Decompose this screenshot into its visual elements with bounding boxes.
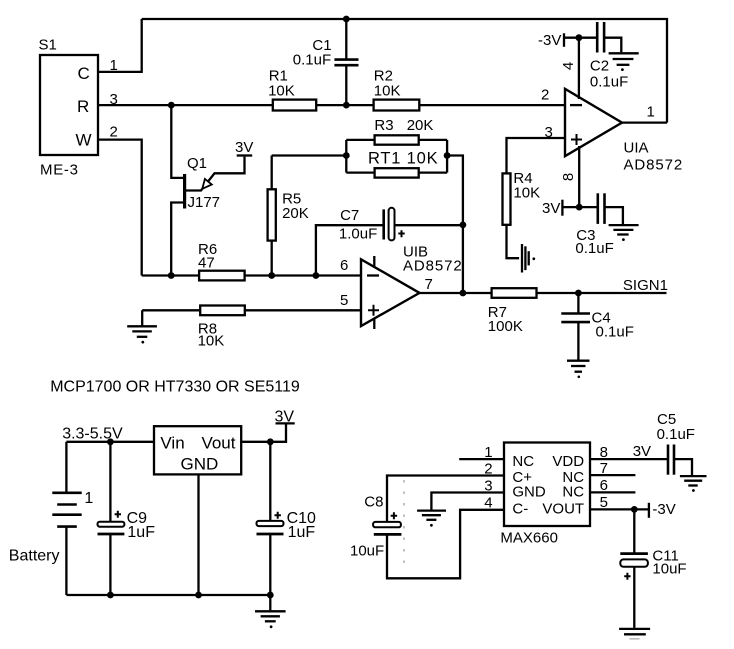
node UIB output [460, 290, 467, 297]
svg-text:10K: 10K [513, 185, 540, 202]
svg-text:20K: 20K [282, 205, 309, 222]
dashed separator [403, 480, 405, 571]
wire -3V to C2 [564, 37, 597, 39]
transistor Q1 J177 [171, 155, 244, 276]
wire rail to ground [269, 595, 271, 610]
ground C2 [609, 53, 639, 71]
capacitor C11 [620, 509, 686, 628]
wire 3V to C3 [562, 206, 597, 208]
wire R5 top to R3/RT1 left node [272, 154, 347, 156]
power -3V terminal [538, 32, 564, 49]
wire Vout to 3V [241, 423, 286, 441]
resistor R3 [346, 117, 447, 145]
svg-text:Battery: Battery [9, 547, 60, 564]
svg-text:Vin: Vin [160, 434, 184, 453]
wire R6 net to UIB pin 6 [142, 274, 361, 276]
node Q1 source on R6 net [168, 272, 175, 279]
svg-text:UIA: UIA [624, 140, 649, 157]
svg-text:MCP1700 OR HT7330 OR SE5119: MCP1700 OR HT7330 OR SE5119 [50, 379, 300, 396]
node C9 top [107, 438, 114, 445]
svg-text:W: W [76, 131, 92, 150]
wire top feedback rail [142, 19, 667, 123]
wire S1 pin C to top rail [98, 19, 142, 72]
wire UIA pin 4 riser [578, 38, 580, 99]
svg-text:4: 4 [560, 62, 577, 70]
svg-text:1uF: 1uF [127, 524, 155, 541]
node R net to Q1 [168, 102, 175, 109]
wire right node to feedback riser [447, 156, 463, 294]
capacitor C1 [293, 19, 359, 105]
switch S1 [39, 37, 99, 179]
power 3V terminal for Q1 gate [235, 139, 253, 156]
node R3/RT1 left [343, 152, 350, 159]
svg-text:10uF: 10uF [652, 560, 686, 577]
node pin4/-3V [576, 34, 583, 41]
svg-text:10K: 10K [374, 83, 401, 100]
ground C5 [680, 476, 707, 492]
svg-text:1uF: 1uF [288, 524, 316, 541]
capacitor C4 [561, 293, 634, 360]
wire battery top riser [65, 442, 67, 493]
svg-text:3V: 3V [235, 139, 253, 156]
node pin8/3V [576, 204, 583, 211]
wire pin 7 NC stub [590, 474, 635, 476]
capacitor C10 [257, 442, 317, 595]
resistor R7 [488, 288, 537, 335]
node C7 right [460, 222, 467, 229]
svg-text:NC: NC [512, 453, 534, 470]
wire pin 2 to C8 [387, 476, 504, 523]
node C7 branch on R6 net [313, 272, 320, 279]
svg-text:NC: NC [562, 484, 584, 501]
op-amp UIA [565, 89, 683, 174]
wire UIA pin 8 riser [578, 146, 580, 207]
wire regulator GND to rail [197, 474, 199, 595]
svg-text:Vout: Vout [201, 434, 235, 453]
svg-text:3V: 3V [542, 200, 560, 217]
wire R8 net to UIB pin 5 [142, 309, 361, 311]
wire pin 8 VDD to C5 [590, 458, 668, 460]
wire R net from S1 pin R to UIA pin 2 [98, 104, 566, 106]
wire Q1 drain riser [171, 105, 183, 178]
svg-text:VDD: VDD [552, 453, 584, 470]
svg-text:8: 8 [560, 173, 577, 181]
svg-text:20K: 20K [407, 117, 434, 134]
node rail C9 [107, 592, 114, 599]
svg-text:VOUT: VOUT [542, 501, 584, 518]
wire pin 5 VOUT to -3V [590, 508, 649, 510]
wire R4 bottom to ground [507, 225, 520, 258]
svg-text:C: C [78, 64, 90, 83]
ground R4 sideways [522, 244, 535, 273]
svg-text:6: 6 [340, 257, 348, 274]
wire UIA output [622, 121, 667, 123]
capacitor C8 [350, 493, 401, 559]
node C10 top [267, 438, 274, 445]
wire battery to Vin [66, 441, 154, 443]
svg-text:RT1 10K: RT1 10K [368, 150, 438, 168]
resistor R8 [198, 306, 245, 350]
wire UIA pin 3 to R4 [507, 138, 567, 173]
op-amp UIB [361, 244, 463, 329]
svg-text:GND: GND [181, 455, 219, 474]
svg-text:C7: C7 [340, 207, 359, 224]
wire pin 4 to C8 bottom [387, 510, 504, 579]
svg-text:C-: C- [512, 501, 528, 518]
svg-text:3V: 3V [633, 443, 651, 460]
battery B1 [9, 490, 94, 564]
svg-text:7: 7 [425, 276, 433, 293]
svg-text:47: 47 [198, 255, 215, 272]
wire R3/RT1 right vertical [446, 140, 448, 173]
node C11 top [631, 506, 638, 513]
node R5 bottom [268, 272, 275, 279]
power -3V terminal MAX660 [649, 501, 676, 518]
svg-text:AD8572: AD8572 [403, 258, 463, 275]
svg-text:10K: 10K [198, 333, 225, 350]
node C1 top [343, 16, 350, 23]
wire battery bottom riser [65, 527, 67, 595]
svg-text:0.1uF: 0.1uF [657, 426, 695, 443]
node rail C10 [267, 592, 274, 599]
capacitor C9 [98, 442, 156, 595]
resistor R2 [374, 67, 420, 110]
svg-text:-3V: -3V [538, 32, 561, 49]
svg-text:5: 5 [340, 292, 348, 309]
wire bottom rail [66, 594, 270, 596]
wire pin 3 to ground [431, 493, 504, 510]
ground MAX660 pin 3 [417, 511, 446, 527]
wire R8 left to ground [141, 310, 143, 325]
svg-text:Q1: Q1 [187, 155, 207, 172]
resistor R1 [268, 67, 316, 110]
svg-text:3V: 3V [275, 408, 295, 425]
wire UIB output to SIGN1 [420, 292, 667, 294]
resistor R6 [198, 241, 245, 280]
wire S1 pin W to R6 line [98, 140, 142, 276]
svg-text:J177: J177 [188, 194, 221, 211]
ground C4 [567, 361, 590, 378]
charge pump U3 MAX660 [500, 443, 590, 547]
capacitor C2 [590, 22, 628, 90]
ground regulator [255, 611, 286, 628]
svg-text:1: 1 [84, 490, 93, 507]
wire pin 6 NC stub [590, 491, 635, 493]
thermistor RT1 [346, 150, 447, 178]
svg-text:GND: GND [512, 484, 546, 501]
capacitor C3 [575, 193, 623, 257]
svg-text:100K: 100K [488, 318, 523, 335]
svg-text:AD8572: AD8572 [624, 156, 684, 173]
svg-text:SIGN1: SIGN1 [623, 277, 668, 294]
svg-text:2: 2 [110, 124, 118, 141]
svg-text:C2: C2 [590, 57, 609, 74]
ground C3 [609, 225, 639, 241]
svg-text:R3: R3 [374, 117, 393, 134]
svg-text:S1: S1 [39, 37, 57, 54]
svg-text:R: R [77, 97, 89, 116]
wire pin 1 NC stub [459, 458, 504, 460]
node C1 bottom [343, 102, 350, 109]
svg-text:ME-3: ME-3 [40, 162, 79, 179]
svg-text:2: 2 [541, 87, 549, 104]
resistor R5 [268, 156, 309, 276]
power 3V terminal UIA [542, 200, 562, 217]
svg-text:0.1uF: 0.1uF [596, 323, 634, 340]
svg-text:1: 1 [647, 104, 655, 121]
capacitor C5 [657, 411, 695, 476]
svg-text:MAX660: MAX660 [500, 530, 558, 547]
node R3/RT1 right [444, 152, 451, 159]
svg-text:0.1uF: 0.1uF [590, 73, 628, 90]
svg-text:0.1uF: 0.1uF [575, 240, 613, 257]
wire R3/RT1 left vertical [345, 140, 347, 173]
svg-text:1.0uF: 1.0uF [339, 226, 377, 243]
regulator U2 [154, 426, 241, 474]
capacitor C7 [316, 207, 463, 276]
ground R8 [127, 326, 157, 343]
node rail GND [195, 592, 202, 599]
svg-text:-3V: -3V [652, 501, 675, 518]
ground C11 [619, 629, 650, 639]
svg-text:3.3-5.5V: 3.3-5.5V [62, 425, 123, 442]
svg-text:10K: 10K [268, 83, 295, 100]
svg-text:10uF: 10uF [350, 542, 384, 559]
node C4 top [575, 290, 582, 297]
svg-text:0.1uF: 0.1uF [293, 52, 331, 69]
power 3V terminal regulator [275, 408, 295, 425]
resistor R4 [503, 170, 541, 225]
svg-text:C8: C8 [364, 493, 383, 510]
